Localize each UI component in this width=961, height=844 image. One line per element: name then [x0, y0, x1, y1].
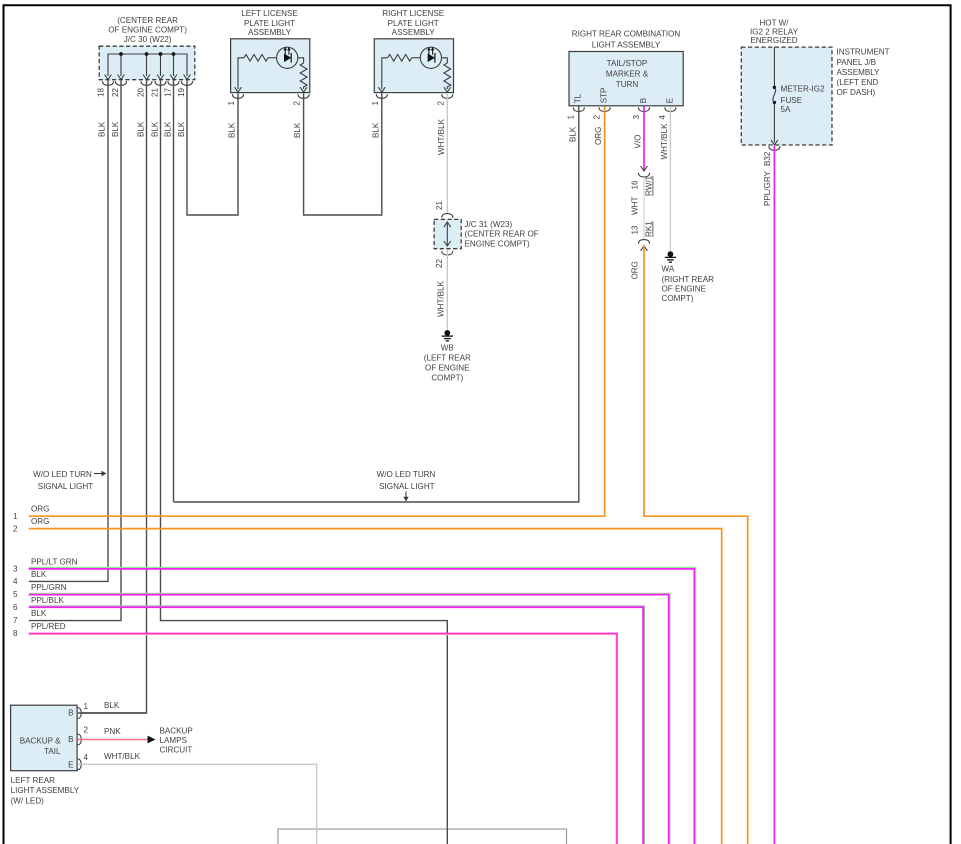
wire PPL/GRY down to bottom	[773, 146, 775, 844]
J/C 30 pin arrows	[105, 75, 112, 80]
svg-text:1: 1	[567, 115, 576, 120]
cup below J/B	[769, 146, 780, 150]
svg-text:B: B	[68, 735, 73, 744]
svg-text:13: 13	[631, 225, 640, 235]
wire BLK pin22 down to wire 7	[29, 80, 121, 620]
svg-text:ORG: ORG	[594, 127, 603, 145]
wire WHT/BLK right license pin2 down to J/C31	[446, 93, 448, 213]
svg-text:BLK: BLK	[98, 121, 107, 137]
svg-text:RIGHT LICENSE: RIGHT LICENSE	[382, 9, 445, 18]
wire from LED	[442, 58, 448, 63]
label HOT W/ IG2 2 RELAY ENERGIZED	[750, 18, 799, 45]
svg-text:ASSEMBLY: ASSEMBLY	[392, 28, 436, 37]
fuse label METER-IG2 FUSE 5A	[781, 84, 826, 114]
svg-text:7: 7	[13, 616, 18, 625]
svg-text:ORG: ORG	[31, 505, 49, 514]
J/C31 labels	[465, 220, 539, 248]
svg-text:(LEFT REAR: (LEFT REAR	[424, 353, 471, 362]
wire BLK pin18 down to wire 4	[29, 80, 108, 581]
svg-text:2: 2	[592, 115, 601, 120]
svg-text:BACKUP: BACKUP	[160, 726, 193, 735]
svg-text:(W/ LED): (W/ LED)	[11, 796, 45, 805]
svg-text:BLK: BLK	[164, 121, 173, 137]
svg-text:19: 19	[177, 87, 186, 97]
svg-text:PPL/RED: PPL/RED	[31, 622, 66, 631]
resistor	[388, 54, 412, 61]
svg-text:BLK: BLK	[151, 121, 160, 137]
wire BLK pin19 to left license pin1	[187, 80, 238, 215]
vertical resistor	[444, 63, 451, 89]
svg-text:LEFT REAR: LEFT REAR	[11, 776, 56, 785]
svg-text:1: 1	[227, 101, 236, 106]
svg-text:ORG: ORG	[31, 517, 49, 526]
junction dots	[119, 52, 123, 56]
svg-text:17: 17	[164, 87, 173, 97]
svg-text:2: 2	[84, 725, 89, 734]
svg-text:WHT/BLK: WHT/BLK	[436, 280, 445, 317]
svg-text:W/O LED TURN: W/O LED TURN	[377, 470, 436, 479]
cup above J/C31	[442, 214, 453, 218]
svg-text:COMPT): COMPT)	[431, 374, 463, 383]
svg-text:STP: STP	[600, 88, 609, 104]
ground WB label	[424, 343, 471, 382]
note W/O LED TURN SIGNAL LIGHT (right, with down arrow)	[377, 470, 436, 502]
svg-text:WB: WB	[441, 343, 454, 352]
svg-text:OF DASH): OF DASH)	[837, 88, 876, 97]
svg-text:1: 1	[13, 512, 18, 521]
wire V/O from B	[643, 106, 645, 170]
svg-text:HOT W/: HOT W/	[759, 18, 789, 27]
svg-text:TAIL: TAIL	[44, 747, 61, 756]
svg-text:RK1: RK1	[645, 221, 654, 237]
svg-text:3: 3	[13, 564, 18, 573]
svg-text:PPL/GRY: PPL/GRY	[763, 170, 772, 206]
inline connector RW/1	[641, 166, 648, 171]
svg-text:RIGHT REAR COMBINATION: RIGHT REAR COMBINATION	[572, 29, 681, 38]
internal wire pin1 riser	[382, 58, 388, 89]
LED emission arrows	[428, 48, 430, 55]
svg-text:2: 2	[436, 101, 445, 106]
svg-text:2: 2	[13, 524, 18, 533]
svg-text:PLATE LIGHT: PLATE LIGHT	[244, 19, 295, 28]
svg-text:ASSEMBLY: ASSEMBLY	[837, 68, 881, 77]
svg-text:PANEL J/B: PANEL J/B	[837, 58, 877, 67]
wire BLK left license pin2 to right license pin1	[304, 93, 382, 215]
wire BLK pin17 down to TL horizontal	[173, 80, 175, 502]
svg-text:ASSEMBLY: ASSEMBLY	[248, 28, 292, 37]
svg-text:WHT: WHT	[631, 197, 640, 215]
backup & tail box	[11, 705, 78, 771]
svg-text:ORG: ORG	[631, 261, 640, 279]
svg-text:LAMPS: LAMPS	[160, 736, 188, 745]
svg-text:2: 2	[293, 101, 302, 106]
svg-text:BLK: BLK	[111, 121, 120, 137]
wire WHT/BLK J/C31 to ground WB	[446, 249, 448, 329]
svg-text:21: 21	[435, 200, 444, 210]
svg-text:PPL/GRN: PPL/GRN	[31, 583, 67, 592]
svg-text:J/C 30 (W22): J/C 30 (W22)	[124, 35, 172, 44]
note BACKUP LAMPS CIRCUIT	[160, 726, 193, 754]
svg-text:3: 3	[632, 115, 641, 120]
left license pin cups	[232, 94, 243, 98]
LED emission arrows	[284, 48, 286, 55]
svg-text:20: 20	[137, 87, 146, 97]
svg-text:22: 22	[435, 258, 444, 268]
J/C31 internal double arrow	[446, 223, 448, 246]
inline connector RK1	[638, 240, 649, 244]
svg-text:BLK: BLK	[568, 126, 577, 142]
LED bulb circle	[277, 47, 298, 68]
note W/O LED TURN SIGNAL LIGHT (left, with right arrow)	[33, 470, 106, 491]
svg-text:8: 8	[13, 629, 18, 638]
svg-text:TL: TL	[573, 93, 582, 103]
wire BLK backup pin1 (joins pin20 riser)	[78, 712, 147, 714]
internal wire pin1 riser	[238, 58, 244, 89]
J/B labels	[837, 48, 890, 97]
svg-text:LIGHT ASSEMBLY: LIGHT ASSEMBLY	[11, 786, 80, 795]
internal label TAIL/STOP MARKER & TURN	[606, 59, 649, 89]
svg-text:RW/1: RW/1	[645, 175, 654, 196]
svg-text:B: B	[68, 708, 73, 717]
svg-text:MARKER &: MARKER &	[606, 70, 649, 79]
label RIGHT LICENSE PLATE LIGHT ASSEMBLY	[382, 9, 445, 37]
junction connector J/C 31 (W23) box	[434, 219, 461, 248]
svg-text:BLK: BLK	[228, 122, 237, 138]
wire WHT/BLK backup pinE down to bottom	[78, 764, 317, 844]
svg-text:WHT/BLK: WHT/BLK	[104, 752, 141, 761]
wire BLK labels under J/C30	[98, 121, 187, 137]
svg-text:21: 21	[151, 87, 160, 97]
svg-text:E: E	[68, 760, 74, 769]
svg-text:PNK: PNK	[104, 727, 121, 736]
cup below J/C31	[442, 251, 453, 255]
svg-text:22: 22	[111, 87, 120, 97]
svg-text:B32: B32	[763, 151, 772, 166]
wire WHT/BLK E down to ground WA	[669, 106, 671, 251]
svg-text:LEFT LICENSE: LEFT LICENSE	[241, 9, 298, 18]
svg-text:LIGHT ASSEMBLY: LIGHT ASSEMBLY	[592, 40, 661, 49]
right license pin cups	[376, 94, 387, 98]
svg-text:PLATE LIGHT: PLATE LIGHT	[388, 19, 439, 28]
right license plate light box	[374, 39, 453, 93]
svg-text:WA: WA	[662, 264, 675, 273]
svg-text:BLK: BLK	[371, 122, 380, 138]
svg-text:ENERGIZED: ENERGIZED	[750, 36, 797, 45]
svg-text:FUSE: FUSE	[781, 96, 803, 105]
svg-text:W/O LED TURN: W/O LED TURN	[33, 470, 92, 479]
pin cups facing right	[77, 707, 81, 718]
svg-text:PPL/BLK: PPL/BLK	[31, 596, 64, 605]
svg-text:(CENTER REAR: (CENTER REAR	[117, 16, 178, 25]
LED bulb circle	[420, 47, 441, 68]
svg-text:1: 1	[84, 702, 89, 711]
pin numbers 18 22 20 21 17 19	[97, 87, 187, 97]
svg-text:OF ENGINE: OF ENGINE	[662, 284, 707, 293]
resistor	[244, 54, 268, 61]
LED diode	[284, 54, 291, 63]
svg-text:ENGINE COMPT): ENGINE COMPT)	[465, 239, 531, 248]
svg-text:BACKUP &: BACKUP &	[20, 737, 61, 746]
svg-text:COMPT): COMPT)	[662, 294, 694, 303]
svg-text:BLK: BLK	[31, 609, 47, 618]
svg-text:5A: 5A	[781, 105, 792, 114]
svg-text:OF ENGINE: OF ENGINE	[425, 364, 470, 373]
ground WB	[442, 330, 453, 341]
wire PNK to backup lamps circuit	[78, 739, 148, 741]
instrument panel J/B box	[741, 47, 832, 145]
svg-text:B: B	[639, 98, 648, 103]
label LEFT LICENSE PLATE LIGHT ASSEMBLY	[241, 9, 298, 37]
svg-text:TAIL/STOP: TAIL/STOP	[607, 59, 648, 68]
svg-text:TURN: TURN	[616, 80, 639, 89]
wire BLK TL down and left to pin17 wire	[174, 106, 579, 502]
ground WA label	[662, 264, 715, 303]
pin cups	[573, 107, 584, 111]
svg-text:5: 5	[13, 590, 18, 599]
wire BLK pin20 down to backup box pin1	[81, 80, 147, 713]
svg-text:1: 1	[371, 101, 380, 106]
J/C 30 internal bus wire	[108, 54, 187, 76]
left license plate light box	[231, 39, 310, 93]
right rear combination light box	[569, 52, 683, 106]
left rear light assembly label	[11, 776, 80, 806]
svg-text:INSTRUMENT: INSTRUMENT	[837, 48, 890, 57]
svg-text:4: 4	[658, 115, 667, 120]
svg-text:E: E	[665, 97, 674, 103]
svg-text:18: 18	[97, 87, 106, 97]
svg-text:WHT/BLK: WHT/BLK	[660, 123, 669, 160]
vertical resistor	[300, 63, 307, 89]
svg-text:(LEFT END: (LEFT END	[837, 78, 879, 87]
svg-text:WHT/BLK: WHT/BLK	[437, 118, 446, 155]
svg-text:6: 6	[13, 603, 18, 612]
junction connector J/C 30 box	[99, 46, 195, 79]
svg-text:CIRCUIT: CIRCUIT	[160, 746, 193, 755]
fuse METER-IG2 5A	[773, 86, 776, 89]
svg-text:(CENTER REAR OF: (CENTER REAR OF	[465, 230, 539, 239]
svg-text:BLK: BLK	[177, 121, 186, 137]
svg-text:BLK: BLK	[31, 570, 47, 579]
svg-text:(RIGHT REAR: (RIGHT REAR	[662, 275, 715, 284]
svg-text:PPL/LT GRN: PPL/LT GRN	[31, 557, 78, 566]
svg-text:SIGNAL LIGHT: SIGNAL LIGHT	[38, 482, 94, 491]
bottom assembly box outline	[278, 829, 567, 844]
svg-text:BLK: BLK	[137, 121, 146, 137]
svg-text:16: 16	[631, 180, 640, 190]
wire to LED	[412, 57, 421, 59]
label RIGHT REAR COMBINATION LIGHT ASSEMBLY	[572, 29, 681, 49]
svg-text:4: 4	[13, 577, 18, 586]
svg-text:V/O: V/O	[634, 135, 643, 149]
svg-text:SIGNAL LIGHT: SIGNAL LIGHT	[379, 482, 435, 491]
wire ORG from inline connector down, right, down to bottom	[644, 246, 748, 844]
svg-text:BLK: BLK	[104, 701, 120, 710]
svg-text:BLK: BLK	[293, 122, 302, 138]
svg-text:METER-IG2: METER-IG2	[781, 84, 826, 93]
J/C 30 pin cups	[102, 81, 113, 85]
label J/C 30	[108, 16, 187, 44]
wire WHT inline	[643, 177, 645, 240]
LED diode	[428, 54, 435, 63]
fuse wire	[773, 47, 775, 142]
wire BLK pin21 down right to bottom	[161, 80, 448, 844]
wire ORG STP down to wire 1	[29, 106, 605, 516]
svg-text:J/C 31 (W23): J/C 31 (W23)	[465, 220, 513, 229]
svg-text:OF ENGINE COMPT): OF ENGINE COMPT)	[108, 25, 187, 34]
svg-text:4: 4	[84, 753, 89, 762]
